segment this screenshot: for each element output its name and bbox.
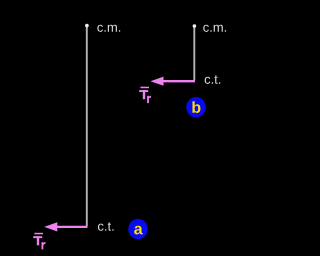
- letter b inside marker: [192, 101, 200, 113]
- node: c.m. pivot dot at top of left rod: [85, 24, 89, 28]
- label Tr with overbar (figure a): [33, 233, 45, 250]
- node a: blue circle marker: [128, 219, 148, 239]
- wire: torque arrow shaft (figure a): [54, 226, 88, 228]
- arrowhead of torque vector Tr (figure b): [150, 77, 163, 86]
- label c.m. (right figure): [203, 25, 226, 32]
- label c.m. (left figure): [97, 25, 120, 32]
- arrowhead of torque vector Tr (figure a): [44, 222, 57, 231]
- node b: blue circle marker: [186, 97, 206, 117]
- wire: right rod (vertical line, figure b): [193, 26, 195, 81]
- letter a inside marker: [134, 226, 143, 235]
- label c.t. (right figure): [205, 75, 221, 84]
- label Tr with overbar (figure b): [139, 87, 151, 103]
- wire: torque arrow shaft (figure b): [161, 80, 196, 82]
- node: c.m. pivot dot at top of right rod: [193, 24, 197, 28]
- label c.t. (left figure): [98, 222, 114, 231]
- wire: left rod (vertical line, figure a): [86, 25, 88, 226]
